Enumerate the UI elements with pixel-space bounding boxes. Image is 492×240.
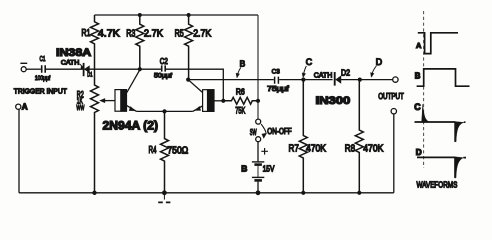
wire ground rail bbox=[19, 192, 394, 194]
wire C node to D2 bbox=[303, 79, 332, 81]
svg-text:OUTPUT: OUTPUT bbox=[378, 92, 404, 101]
svg-text:R6: R6 bbox=[236, 88, 245, 97]
svg-text:D1: D1 bbox=[87, 72, 92, 79]
svg-text:A: A bbox=[22, 103, 28, 112]
terminal A bbox=[16, 104, 21, 109]
junction Q1 collector node bbox=[138, 67, 142, 71]
svg-text:R1: R1 bbox=[81, 28, 90, 39]
input terminal with overbar bbox=[21, 67, 26, 72]
svg-text:15V: 15V bbox=[263, 165, 275, 174]
svg-text:470K: 470K bbox=[363, 143, 383, 154]
svg-text:TRIGGER INPUT: TRIGGER INPUT bbox=[14, 87, 68, 96]
svg-text:100μμf: 100μμf bbox=[35, 75, 51, 82]
svg-text:75μμf: 75μμf bbox=[267, 84, 290, 93]
junction R7 ground rail bbox=[301, 191, 305, 195]
wire C1 to diode D1 bbox=[46, 68, 83, 70]
transistor Q2 2N94A bbox=[203, 90, 214, 112]
node D junction bbox=[358, 78, 362, 82]
wire C3 to node C bbox=[279, 79, 303, 81]
svg-text:50μμf: 50μμf bbox=[154, 73, 172, 80]
capacitor C1 bbox=[42, 65, 46, 73]
svg-text:C3: C3 bbox=[272, 69, 280, 76]
svg-text:2.7K: 2.7K bbox=[144, 28, 163, 39]
svg-text:C1: C1 bbox=[40, 54, 46, 63]
wire lower output terminal to ground rail bbox=[393, 114, 395, 193]
svg-text:D2: D2 bbox=[341, 68, 350, 78]
svg-text:R7: R7 bbox=[289, 143, 300, 154]
svg-text:ON-OFF: ON-OFF bbox=[267, 127, 291, 136]
svg-text:WW: WW bbox=[76, 103, 84, 112]
resistor R8 470K bbox=[355, 80, 363, 193]
wire C2 to Q2 base bbox=[166, 69, 223, 101]
wire D2 to output bbox=[341, 79, 393, 81]
resistor R4 750 ohm bbox=[161, 111, 169, 192]
battery B 15V bbox=[257, 141, 259, 162]
R2 wiper arrow from Q1 base bbox=[103, 100, 115, 102]
resistor R1 4.7K bbox=[91, 15, 99, 69]
switch SW ON-OFF bbox=[256, 119, 261, 124]
junction R6 to +V line bbox=[256, 99, 260, 103]
svg-text:C: C bbox=[306, 57, 313, 67]
svg-text:R8: R8 bbox=[345, 143, 356, 154]
junction battery ground rail bbox=[256, 190, 261, 195]
junction Q2 collector node B bbox=[186, 78, 190, 82]
svg-text:WAVEFORMS: WAVEFORMS bbox=[417, 180, 458, 190]
diode D1 1N38A bbox=[83, 63, 85, 76]
wire +V right vertical to switch bbox=[257, 15, 259, 119]
emitter rail wire bbox=[137, 110, 193, 112]
svg-text:2.7K: 2.7K bbox=[193, 28, 211, 39]
waveform A trace bbox=[418, 33, 458, 54]
waveform B trace bbox=[417, 69, 470, 86]
junction Q2 base node bbox=[221, 99, 225, 103]
junction R3 top rail bbox=[138, 13, 142, 17]
svg-text:D: D bbox=[416, 148, 422, 157]
svg-text:R3: R3 bbox=[126, 28, 135, 39]
wire B line (Q2 collector to C3) bbox=[188, 79, 274, 81]
svg-text:D: D bbox=[376, 57, 382, 67]
waveform C trace bbox=[415, 121, 466, 123]
resistor R3 2.7K bbox=[136, 15, 144, 69]
svg-text:B: B bbox=[241, 163, 247, 173]
svg-text:A: A bbox=[416, 41, 422, 50]
svg-text:R5: R5 bbox=[175, 28, 184, 39]
wire top +V rail bbox=[95, 14, 259, 16]
svg-text:4.7K: 4.7K bbox=[98, 28, 120, 39]
svg-text:C2: C2 bbox=[160, 57, 168, 66]
svg-text:IN300: IN300 bbox=[316, 95, 351, 107]
resistor R7 470K bbox=[299, 80, 307, 193]
transistor Q1 2N94A bbox=[115, 90, 127, 112]
wire terminal A to ground rail bbox=[18, 109, 20, 192]
output terminal lower bbox=[391, 109, 396, 114]
svg-text:R4: R4 bbox=[149, 145, 157, 156]
ground symbol bbox=[163, 193, 165, 200]
junction R4 ground rail bbox=[162, 190, 167, 195]
potentiometer R2 1K WW bbox=[91, 69, 99, 193]
svg-text:IN38A: IN38A bbox=[56, 47, 91, 59]
svg-text:470K: 470K bbox=[306, 143, 326, 154]
svg-text:B: B bbox=[415, 72, 421, 81]
svg-text:75K: 75K bbox=[235, 106, 245, 116]
junction emitter rail R4 bbox=[162, 109, 166, 113]
svg-text:B: B bbox=[240, 59, 246, 69]
wire trigger input line to C1 bbox=[26, 68, 41, 70]
node C junction bbox=[301, 78, 305, 82]
diode D2 1N300 bbox=[334, 72, 336, 86]
svg-text:2N94A (2): 2N94A (2) bbox=[103, 119, 159, 133]
output terminal upper bbox=[393, 77, 398, 82]
waveform timing dashed line bbox=[423, 11, 425, 168]
junction R2 ground rail bbox=[92, 191, 96, 195]
junction R5 top rail bbox=[187, 13, 191, 17]
svg-text:750Ω: 750Ω bbox=[167, 145, 188, 156]
svg-text:C: C bbox=[414, 102, 421, 112]
svg-text:CATH: CATH bbox=[314, 70, 333, 79]
resistor R6 75K bbox=[223, 97, 258, 104]
capacitor C3 75uuf bbox=[275, 77, 279, 84]
waveform D trace bbox=[417, 156, 466, 158]
wire D1 to Q1 collector node bbox=[89, 68, 139, 70]
svg-text:CATH: CATH bbox=[61, 60, 79, 67]
capacitor C2 bbox=[140, 68, 161, 70]
resistor R5 2.7K bbox=[185, 15, 193, 80]
svg-text:SW: SW bbox=[250, 128, 257, 137]
junction R8 ground rail bbox=[357, 191, 361, 195]
